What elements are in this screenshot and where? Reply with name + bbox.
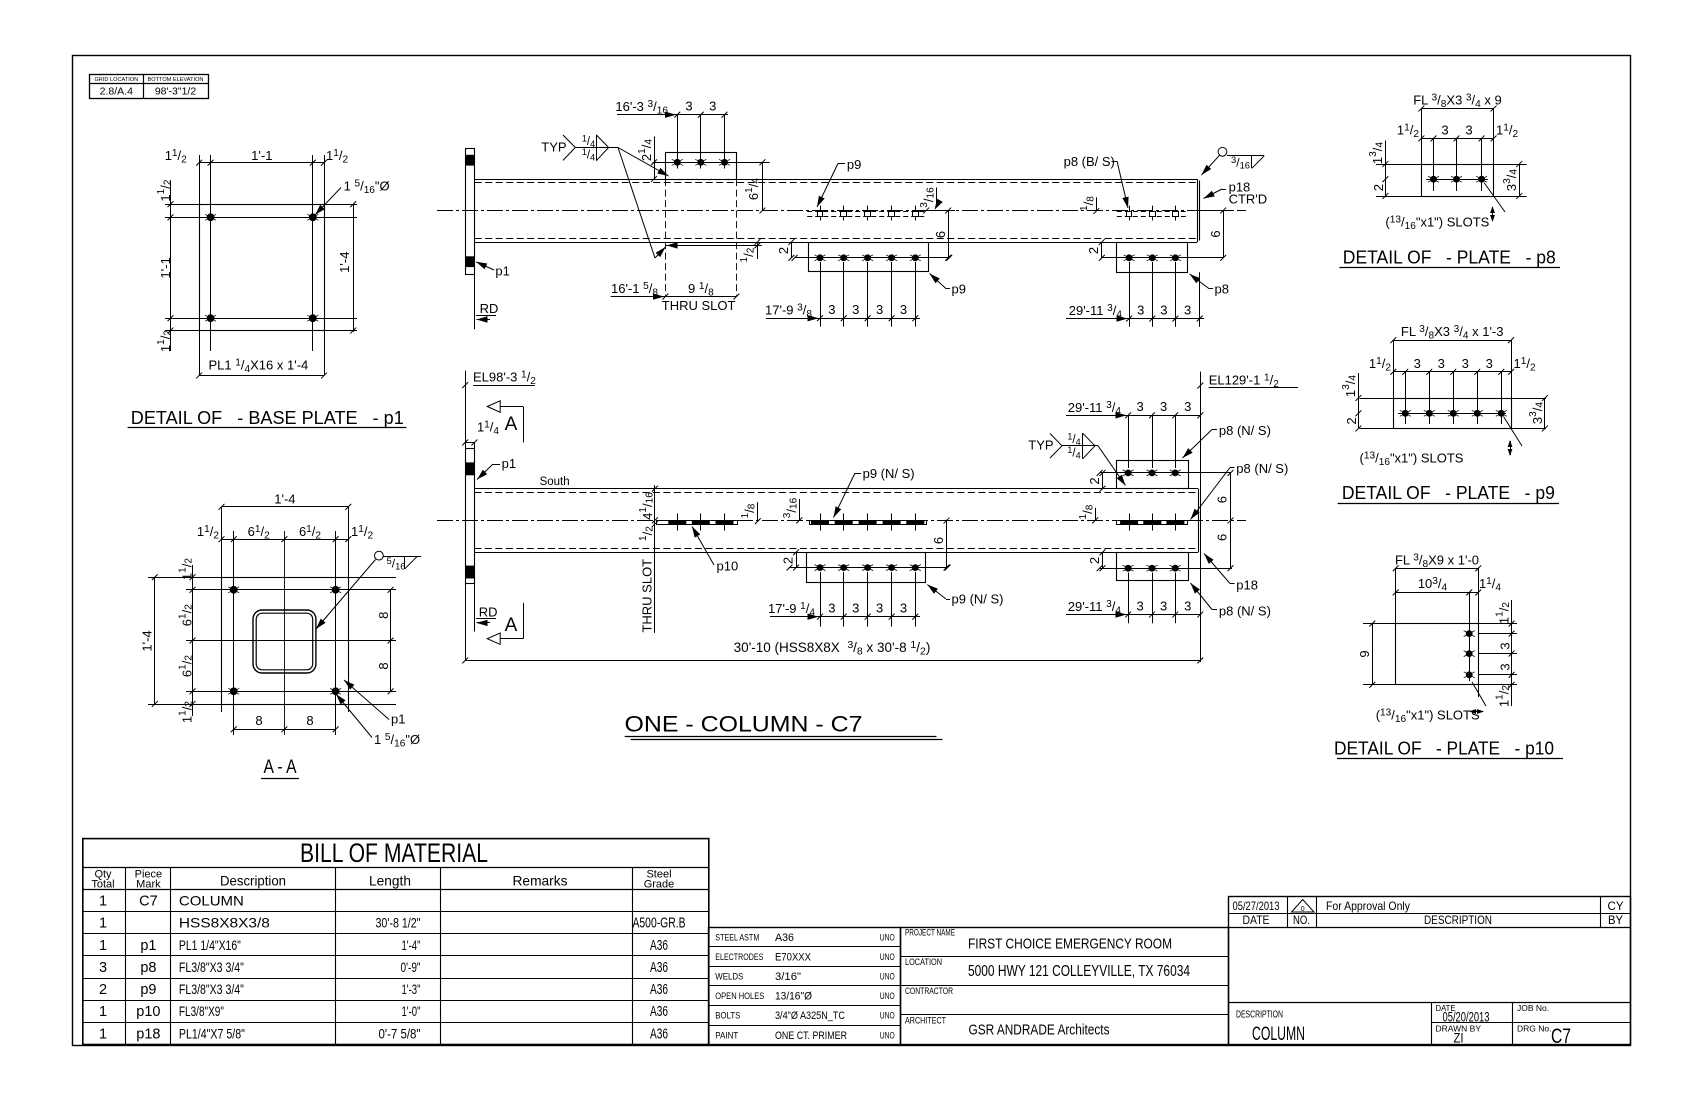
svg-text:FIRST CHOICE EMERGENCY ROOM: FIRST CHOICE EMERGENCY ROOM xyxy=(968,936,1172,953)
svg-text:3: 3 xyxy=(1160,599,1167,614)
svg-text:2: 2 xyxy=(99,982,107,998)
svg-text:3: 3 xyxy=(99,960,107,976)
svg-text:30'-10 (HSS8X8X 3/8 x 30'-8 1: 30'-10 (HSS8X8X 3/8 x 30'-8 1/2) xyxy=(734,639,931,657)
svg-text:UNO: UNO xyxy=(880,991,895,1002)
svg-text:A36: A36 xyxy=(650,1026,668,1042)
svg-text:1: 1 xyxy=(99,1026,107,1042)
svg-text:p8: p8 xyxy=(1215,282,1229,297)
svg-text:2: 2 xyxy=(1086,247,1101,254)
svg-text:17'-9 3/8: 17'-9 3/8 xyxy=(765,303,812,320)
svg-text:COLUMN: COLUMN xyxy=(179,893,244,909)
svg-text:FL 3/8X9 x 1'-0: FL 3/8X9 x 1'-0 xyxy=(1395,553,1479,570)
svg-text:1'-4: 1'-4 xyxy=(337,252,352,273)
svg-text:FL3/8"X3 3/4": FL3/8"X3 3/4" xyxy=(179,959,244,975)
svg-text:PL1 1/4X16 x 1'-4: PL1 1/4X16 x 1'-4 xyxy=(209,358,309,375)
svg-text:Description: Description xyxy=(220,873,286,889)
svg-text:2: 2 xyxy=(780,557,795,564)
svg-text:p1: p1 xyxy=(391,712,405,727)
svg-text:1'-0": 1'-0" xyxy=(402,1003,421,1019)
svg-text:p8 (N/ S): p8 (N/ S) xyxy=(1236,461,1288,476)
svg-text:3: 3 xyxy=(1441,123,1448,138)
svg-text:2: 2 xyxy=(776,247,791,254)
svg-text:3: 3 xyxy=(1465,123,1472,138)
svg-text:p8 (N/ S): p8 (N/ S) xyxy=(1219,423,1271,438)
svg-text:3: 3 xyxy=(852,601,859,616)
svg-text:3: 3 xyxy=(1497,642,1512,649)
svg-text:A: A xyxy=(505,414,518,435)
svg-text:1: 1 xyxy=(99,1004,107,1020)
svg-text:1'-1: 1'-1 xyxy=(158,257,173,278)
svg-text:3: 3 xyxy=(1184,399,1191,414)
svg-text:1: 1 xyxy=(99,916,107,932)
svg-text:6: 6 xyxy=(1214,496,1229,503)
svg-text:3: 3 xyxy=(876,601,883,616)
svg-text:E70XXX: E70XXX xyxy=(775,951,812,963)
svg-text:13/16"Ø: 13/16"Ø xyxy=(775,991,812,1003)
svg-text:6: 6 xyxy=(931,537,946,544)
svg-text:A36: A36 xyxy=(650,938,668,954)
svg-text:98'-3"1/2: 98'-3"1/2 xyxy=(155,85,197,97)
svg-text:2: 2 xyxy=(1344,417,1359,424)
svg-text:BY: BY xyxy=(1608,913,1623,927)
svg-text:DRG No.: DRG No. xyxy=(1517,1024,1551,1034)
svg-text:p9 (N/ S): p9 (N/ S) xyxy=(952,592,1004,607)
svg-text:p1: p1 xyxy=(502,456,516,471)
svg-text:3: 3 xyxy=(1136,599,1143,614)
svg-text:FL3/8"X9": FL3/8"X9" xyxy=(179,1003,224,1019)
svg-text:3: 3 xyxy=(1438,356,1445,371)
svg-text:p9: p9 xyxy=(847,157,861,172)
svg-text:16'-1 5/8: 16'-1 5/8 xyxy=(611,281,658,298)
svg-text:BILL OF MATERIAL: BILL OF MATERIAL xyxy=(300,838,488,868)
svg-text:CTR'D: CTR'D xyxy=(1229,192,1268,207)
svg-text:A36: A36 xyxy=(650,960,668,976)
svg-text:2.8/A.4: 2.8/A.4 xyxy=(100,85,133,97)
svg-text:PROJECT NAME: PROJECT NAME xyxy=(905,928,955,938)
svg-text:3/16": 3/16" xyxy=(775,971,801,983)
svg-text:3: 3 xyxy=(1486,356,1493,371)
svg-text:Total: Total xyxy=(91,879,114,891)
svg-text:1'-4: 1'-4 xyxy=(274,492,295,507)
svg-text:2: 2 xyxy=(1087,477,1102,484)
svg-text:DATE: DATE xyxy=(1243,913,1270,927)
svg-text:p8 (B/ S): p8 (B/ S) xyxy=(1064,154,1115,169)
svg-text:3: 3 xyxy=(828,601,835,616)
svg-text:HSS8X8X3/8: HSS8X8X3/8 xyxy=(179,915,270,931)
svg-text:3: 3 xyxy=(1136,399,1143,414)
svg-text:8: 8 xyxy=(255,713,262,728)
svg-text:PL1/4"X7 5/8": PL1/4"X7 5/8" xyxy=(179,1025,245,1041)
svg-text:ZI: ZI xyxy=(1454,1031,1464,1046)
svg-text:RD: RD xyxy=(480,301,499,316)
svg-text:1: 1 xyxy=(99,894,107,910)
svg-text:South: South xyxy=(540,476,570,488)
svg-text:3: 3 xyxy=(1160,399,1167,414)
svg-text:p18: p18 xyxy=(1236,578,1258,593)
svg-text:3: 3 xyxy=(1184,599,1191,614)
svg-text:A36: A36 xyxy=(775,932,794,944)
svg-text:0'-9": 0'-9" xyxy=(401,959,421,975)
svg-text:THRU SLOT: THRU SLOT xyxy=(662,298,736,313)
svg-text:3: 3 xyxy=(876,302,883,317)
svg-text:p8: p8 xyxy=(140,960,156,976)
svg-text:2: 2 xyxy=(1371,184,1386,191)
svg-text:Length: Length xyxy=(369,873,411,889)
svg-text:LOCATION: LOCATION xyxy=(905,957,942,967)
svg-text:29'-11 3/4: 29'-11 3/4 xyxy=(1069,303,1123,320)
svg-text:1'-4": 1'-4" xyxy=(402,937,421,953)
svg-text:3: 3 xyxy=(1184,303,1191,318)
svg-text:3: 3 xyxy=(900,302,907,317)
svg-text:UNO: UNO xyxy=(880,972,895,983)
svg-text:05/20/2013: 05/20/2013 xyxy=(1443,1010,1490,1025)
svg-text:29'-11 3/4: 29'-11 3/4 xyxy=(1068,599,1122,616)
svg-text:NO.: NO. xyxy=(1293,913,1310,927)
svg-text:UNO: UNO xyxy=(880,1030,895,1041)
svg-text:ARCHITECT: ARCHITECT xyxy=(905,1016,946,1026)
svg-text:Remarks: Remarks xyxy=(513,873,568,889)
svg-text:6: 6 xyxy=(933,231,948,238)
svg-text:3: 3 xyxy=(1137,303,1144,318)
svg-text:CY: CY xyxy=(1608,899,1624,913)
svg-text:05/27/2013: 05/27/2013 xyxy=(1233,899,1280,913)
svg-text:3: 3 xyxy=(1497,663,1512,670)
svg-text:(13/16"x1") SLOTS: (13/16"x1") SLOTS xyxy=(1360,451,1464,468)
svg-text:CONTRACTOR: CONTRACTOR xyxy=(905,986,953,996)
svg-text:1'-4: 1'-4 xyxy=(139,630,154,651)
svg-text:ONE - COLUMN - C7: ONE - COLUMN - C7 xyxy=(625,712,863,737)
svg-text:FL 3/8X3 3/4 x 9: FL 3/8X3 3/4 x 9 xyxy=(1413,93,1502,110)
svg-text:1'-3": 1'-3" xyxy=(402,981,421,997)
svg-text:A36: A36 xyxy=(650,1004,668,1020)
svg-text:GSR ANDRADE Architects: GSR ANDRADE Architects xyxy=(969,1022,1110,1039)
svg-text:TYP: TYP xyxy=(1028,438,1053,453)
svg-text:For Approval Only: For Approval Only xyxy=(1326,899,1410,913)
svg-text:3: 3 xyxy=(1160,303,1167,318)
svg-text:DESCRIPTION: DESCRIPTION xyxy=(1424,913,1492,927)
svg-text:3/4"Ø A325N_TC: 3/4"Ø A325N_TC xyxy=(775,1010,845,1022)
svg-text:p10: p10 xyxy=(717,559,739,574)
svg-text:BOLTS: BOLTS xyxy=(715,1011,740,1021)
svg-text:UNO: UNO xyxy=(880,952,895,963)
svg-text:p1: p1 xyxy=(495,264,509,279)
svg-text:DETAIL OF - BASE PLATE - p: DETAIL OF - BASE PLATE - p1 xyxy=(131,407,404,428)
svg-text:3: 3 xyxy=(1414,356,1421,371)
svg-text:GRID LOCATION: GRID LOCATION xyxy=(94,77,138,83)
svg-text:Grade: Grade xyxy=(644,879,675,891)
svg-text:3: 3 xyxy=(900,601,907,616)
svg-text:(13/16"x1") SLOTS: (13/16"x1") SLOTS xyxy=(1385,215,1489,232)
svg-text:3: 3 xyxy=(709,98,716,113)
svg-text:TYP: TYP xyxy=(541,140,566,155)
svg-text:p1: p1 xyxy=(140,938,156,954)
svg-text:ELECTRODES: ELECTRODES xyxy=(715,952,763,962)
svg-text:C7: C7 xyxy=(1551,1025,1571,1048)
svg-text:OPEN HOLES: OPEN HOLES xyxy=(715,991,764,1001)
svg-text:WELDS: WELDS xyxy=(715,972,743,982)
svg-text:p9 (N/ S): p9 (N/ S) xyxy=(863,466,915,481)
svg-text:3: 3 xyxy=(828,302,835,317)
svg-text:1'-1: 1'-1 xyxy=(251,148,272,163)
svg-text:30'-8 1/2": 30'-8 1/2" xyxy=(376,915,421,931)
svg-text:ONE CT. PRIMER: ONE CT. PRIMER xyxy=(775,1030,847,1042)
svg-text:6: 6 xyxy=(1208,230,1223,237)
svg-text:3: 3 xyxy=(852,302,859,317)
svg-text:p8 (N/ S): p8 (N/ S) xyxy=(1219,604,1271,619)
svg-text:3: 3 xyxy=(1462,356,1469,371)
svg-text:PL1 1/4"X16": PL1 1/4"X16" xyxy=(179,937,241,953)
svg-text:p10: p10 xyxy=(136,1004,160,1020)
svg-text:EL98'-3 1/2: EL98'-3 1/2 xyxy=(473,370,536,387)
svg-text:8: 8 xyxy=(376,662,391,669)
svg-text:17'-9 1/4: 17'-9 1/4 xyxy=(768,601,815,618)
svg-text:FL3/8"X3 3/4": FL3/8"X3 3/4" xyxy=(179,981,244,997)
svg-text:5000 HWY 121 COLLEYVILLE, TX 7: 5000 HWY 121 COLLEYVILLE, TX 76034 xyxy=(968,963,1190,980)
svg-text:STEEL ASTM: STEEL ASTM xyxy=(715,932,759,942)
svg-text:PAINT: PAINT xyxy=(715,1030,738,1040)
svg-text:2: 2 xyxy=(1087,557,1102,564)
svg-text:DESCRIPTION: DESCRIPTION xyxy=(1236,1010,1283,1021)
svg-text:Mark: Mark xyxy=(136,879,161,891)
svg-text:UNO: UNO xyxy=(880,932,895,943)
svg-text:DETAIL OF - PLATE - p10: DETAIL OF - PLATE - p10 xyxy=(1334,738,1554,759)
svg-text:A - A: A - A xyxy=(264,757,297,778)
svg-text:(13/16"x1") SLOTS: (13/16"x1") SLOTS xyxy=(1376,708,1480,725)
svg-text:COLUMN: COLUMN xyxy=(1252,1024,1305,1045)
svg-text:UNO: UNO xyxy=(880,1011,895,1022)
svg-text:29'-11 3/4: 29'-11 3/4 xyxy=(1068,400,1122,417)
svg-text:JOB No.: JOB No. xyxy=(1517,1003,1549,1013)
svg-text:BOTTOM ELEVATION: BOTTOM ELEVATION xyxy=(148,77,204,83)
svg-text:DETAIL OF - PLATE - p8: DETAIL OF - PLATE - p8 xyxy=(1343,247,1556,268)
svg-text:8: 8 xyxy=(306,713,313,728)
svg-text:8: 8 xyxy=(376,612,391,619)
svg-text:A: A xyxy=(505,615,518,636)
svg-text:A500-GR.B: A500-GR.B xyxy=(633,916,686,932)
svg-text:RD: RD xyxy=(479,605,498,620)
svg-text:THRU SLOT: THRU SLOT xyxy=(639,559,654,633)
svg-text:p9: p9 xyxy=(952,282,966,297)
svg-text:0'-7 5/8": 0'-7 5/8" xyxy=(379,1025,421,1041)
svg-text:p18: p18 xyxy=(136,1026,160,1042)
svg-text:p9: p9 xyxy=(140,982,156,998)
svg-text:9: 9 xyxy=(1357,650,1372,657)
svg-text:DETAIL OF - PLATE - p9: DETAIL OF - PLATE - p9 xyxy=(1342,482,1555,503)
svg-text:C7: C7 xyxy=(139,894,158,910)
svg-text:FL 3/8X3 3/4 x 1'-3: FL 3/8X3 3/4 x 1'-3 xyxy=(1401,324,1504,341)
svg-text:3: 3 xyxy=(685,98,692,113)
svg-text:6: 6 xyxy=(1214,534,1229,541)
svg-text:1: 1 xyxy=(99,938,107,954)
svg-text:A36: A36 xyxy=(650,982,668,998)
